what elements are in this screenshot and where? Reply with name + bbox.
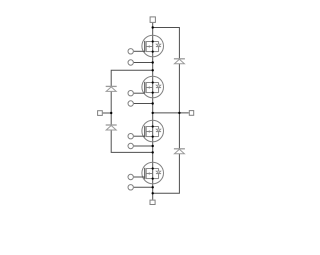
junction left branch top bbox=[152, 69, 154, 71]
node gate terminal M4 bbox=[128, 174, 133, 179]
wire midpoint node bbox=[153, 112, 189, 114]
node gate terminal M3 bbox=[128, 134, 133, 139]
diode D3 (right upper) bbox=[174, 59, 185, 64]
junction midpoint main bbox=[152, 112, 154, 114]
junction left terminal bbox=[110, 112, 112, 114]
mosfet M2 bbox=[142, 76, 164, 98]
wire left branch bbox=[111, 70, 153, 152]
junction top drain bbox=[152, 26, 154, 28]
node source terminal M2 bbox=[128, 101, 133, 106]
terminal right (midpoint B) bbox=[189, 111, 193, 116]
wire left terminal lead bbox=[103, 112, 111, 114]
terminal bottom (source) bbox=[150, 200, 155, 204]
junction M3 source bbox=[152, 145, 154, 147]
mosfet M3 bbox=[142, 120, 164, 142]
node source terminal M3 bbox=[128, 143, 133, 148]
wire source lead M4 bbox=[134, 186, 153, 188]
terminal left (midpoint A) bbox=[98, 111, 103, 116]
node gate terminal M1 bbox=[128, 49, 133, 54]
wire source lead M3 bbox=[134, 145, 153, 147]
node gate terminal M2 bbox=[128, 91, 133, 96]
junction M2 source bbox=[152, 102, 154, 104]
junction right branch bottom bbox=[152, 192, 154, 194]
terminal top (drain) bbox=[150, 17, 155, 23]
wire gate lead M3 bbox=[134, 135, 145, 137]
diode D1 (left upper) bbox=[106, 86, 117, 91]
wire source lead M1 bbox=[134, 62, 153, 64]
junction M4 source bbox=[152, 186, 154, 188]
wire right branch bbox=[153, 28, 180, 194]
junction left branch bottom bbox=[152, 151, 154, 153]
wire main series line bbox=[152, 23, 154, 200]
wire gate lead M2 bbox=[134, 92, 145, 94]
diode D2 (left lower) bbox=[106, 125, 117, 130]
mosfet M1 bbox=[142, 35, 164, 57]
junction M1 source bbox=[152, 61, 154, 63]
node source terminal M4 bbox=[128, 185, 133, 190]
junction midpoint right branch bbox=[178, 112, 180, 114]
wire gate lead M4 bbox=[134, 176, 145, 178]
node source terminal M1 bbox=[128, 60, 133, 65]
mosfet M4 bbox=[142, 162, 164, 184]
wire source lead M2 bbox=[134, 103, 153, 105]
wire gate lead M1 bbox=[134, 50, 145, 52]
diode D4 (right lower) bbox=[174, 149, 185, 154]
